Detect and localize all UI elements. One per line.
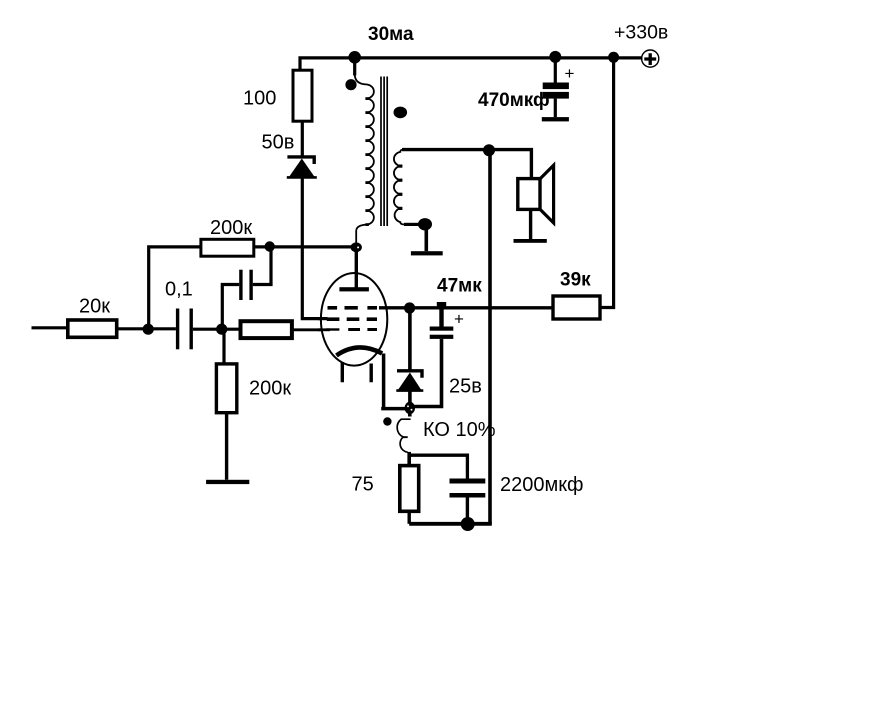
zener diode 50в <box>287 157 317 178</box>
svg-text:+330в: +330в <box>614 22 668 44</box>
diode 25в <box>396 308 423 403</box>
svg-text:20к: 20к <box>79 296 110 318</box>
wire zener down to screen grid <box>302 178 327 319</box>
node square 47мк top <box>437 302 446 308</box>
svg-text:200к: 200к <box>249 378 291 400</box>
transformer T1 primary winding <box>355 74 374 243</box>
ground bar under 470мкф <box>542 117 569 121</box>
transformer secondary cusp ticks <box>398 165 402 211</box>
phase dot primary <box>345 79 356 90</box>
resistor grid stopper <box>241 321 292 338</box>
phase dot KO <box>383 417 391 425</box>
resistor 100 <box>293 70 312 121</box>
wire 200k left leg <box>149 247 201 330</box>
wire 75 to bottom <box>408 511 411 524</box>
node anode/primary junction <box>351 242 362 252</box>
transformer core <box>381 77 387 227</box>
wire 39k to top rail <box>600 57 614 307</box>
svg-text:200к: 200к <box>210 217 252 239</box>
wire control grid entry (over envelope) <box>318 328 330 331</box>
svg-text:2200мкф: 2200мкф <box>500 474 583 496</box>
svg-text:50в: 50в <box>262 132 295 154</box>
capacitor 2200мкф <box>450 479 486 525</box>
node junction diode top <box>404 302 415 313</box>
wire cap to grid node <box>193 328 241 331</box>
svg-text:39к: 39к <box>560 270 591 291</box>
node junction grid node <box>216 324 227 335</box>
ground under secondary <box>411 224 443 255</box>
wire grid node down to 200k bottom <box>222 329 225 364</box>
resistor 200к (grid leak, vertical) <box>216 364 236 413</box>
resistor 200к (feedback, horizontal) <box>201 239 254 256</box>
resistor 39к <box>553 296 600 319</box>
wire 200k row to anode diamond <box>254 245 352 248</box>
tube grid row 1 (screen) <box>328 306 378 310</box>
svg-text:КО 10%: КО 10% <box>423 419 496 441</box>
node junction bottom <box>461 517 475 531</box>
speaker LS1 <box>518 165 554 223</box>
inductor KO winding <box>397 414 410 466</box>
wire screen grid entry (over envelope) <box>318 317 328 320</box>
tube V1 envelope <box>321 273 387 366</box>
svg-text:0,1: 0,1 <box>165 279 193 301</box>
capacitor 0,1 <box>176 309 193 350</box>
svg-text:100: 100 <box>243 88 276 110</box>
node junction 200k/cap <box>265 241 275 251</box>
wire grid node up to coupling cap <box>222 285 239 330</box>
wire feedback vertical <box>488 150 492 524</box>
capacitor C 470мкф <box>543 57 569 117</box>
node junction at 39k rail <box>608 52 619 63</box>
svg-text:+: + <box>565 64 575 83</box>
wire coupling cap to 200k node <box>253 247 271 285</box>
wire output node (screen row to 39k) <box>379 306 553 309</box>
wire bottom return <box>409 522 492 526</box>
resistor 75 <box>400 466 419 512</box>
tube anode lead <box>355 252 358 288</box>
transformer primary cusp ticks <box>365 97 368 226</box>
tube anode plate <box>339 287 369 291</box>
svg-text:25в: 25в <box>449 376 482 398</box>
node junction speaker/feedback <box>483 144 495 156</box>
wire primary top lead <box>353 57 356 75</box>
wire KO to 2200uf <box>409 455 467 478</box>
resistor 20к <box>68 320 117 337</box>
node junction top-left (transformer tap) <box>348 51 361 64</box>
svg-text:30ма: 30ма <box>368 24 414 45</box>
wire secondary bottom <box>404 223 420 226</box>
wire 20k to cap 0,1 <box>117 327 176 330</box>
node secondary bottom blob <box>418 218 432 230</box>
terminal +330v <box>642 50 659 67</box>
wire top B+ rail <box>300 58 643 70</box>
wire 200k bottom to ground <box>225 413 228 480</box>
wire grid stopper to control grid <box>292 328 330 331</box>
wire resistor to zener <box>301 121 304 155</box>
tube cathode arc <box>336 347 382 355</box>
node cathode junction <box>405 402 415 414</box>
capacitor coupling (upper) <box>239 270 253 300</box>
tube grid row 2 <box>327 317 377 321</box>
svg-text:+: + <box>454 310 464 329</box>
tube heater legs <box>342 362 371 382</box>
transformer T1 secondary winding <box>394 150 419 225</box>
tube cathode lead to junction <box>381 354 405 409</box>
wire input <box>32 326 68 329</box>
ground under 200k <box>206 480 249 484</box>
phase dot secondary <box>394 107 408 119</box>
svg-text:47мк: 47мк <box>437 275 482 296</box>
svg-text:470мкф: 470мкф <box>478 90 550 111</box>
tube grid row 3 (control) <box>326 328 377 331</box>
node junction input/feedback <box>143 324 154 335</box>
wire secondary top to speaker <box>402 150 531 179</box>
svg-text:75: 75 <box>352 474 374 496</box>
node junction at 470uf <box>549 51 561 63</box>
ground under speaker <box>514 209 547 242</box>
capacitor 47мк <box>414 308 453 407</box>
